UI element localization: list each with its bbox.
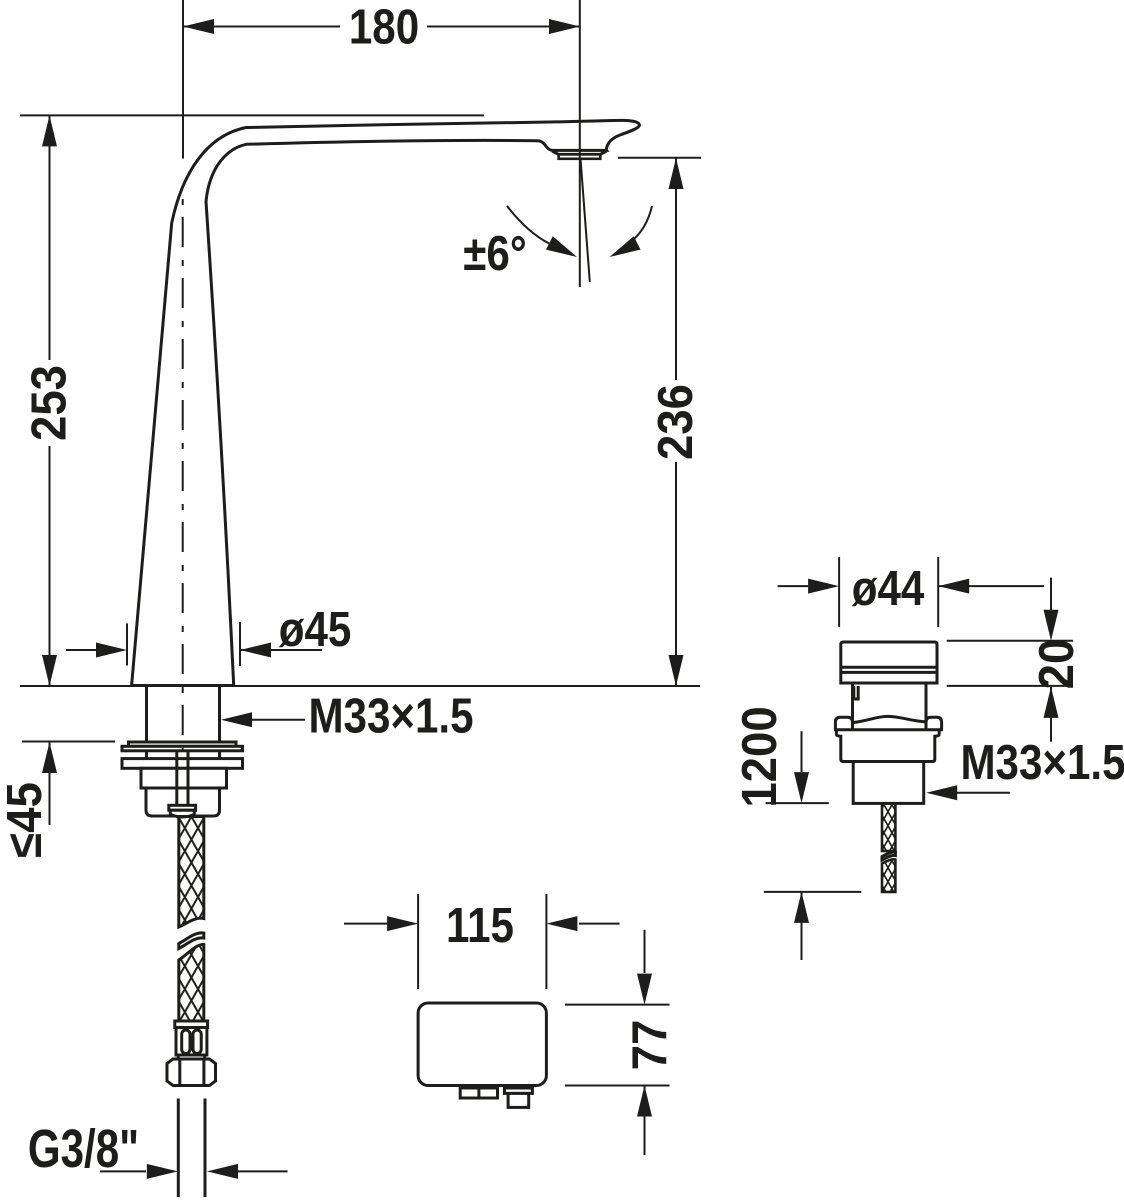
flange base line (834, 728, 943, 731)
20 extension lines (947, 641, 1073, 686)
svg-text:1200: 1200 (733, 706, 788, 807)
M33x1.5 leader arrow (right) (957, 792, 1010, 794)
svg-text:ø44: ø44 (852, 561, 925, 616)
svg-text:G3/8": G3/8" (28, 1119, 139, 1179)
dimension 77 (644, 930, 646, 1155)
svg-text:ø45: ø45 (279, 602, 352, 657)
crimp band 1 (175, 1021, 208, 1028)
77 extension lines (565, 1005, 670, 1086)
dimension G3/8 (100, 1170, 288, 1172)
lock nut upper D (141, 768, 227, 788)
valve cap (841, 642, 937, 683)
dimension <=45 (49, 742, 51, 825)
valve hose lower (882, 859, 895, 892)
counter underside line (22, 741, 115, 743)
dimension o44 (778, 585, 1044, 587)
svg-text:77: 77 (623, 1020, 678, 1071)
braided hose upper section (179, 817, 204, 928)
dimension 1200 (801, 731, 803, 960)
svg-text:M33×1.5: M33×1.5 (308, 689, 473, 744)
svg-text:±6°: ±6° (463, 226, 526, 281)
1200 tick lines (764, 803, 861, 892)
control box (418, 1003, 546, 1086)
dimension 115 (344, 923, 620, 925)
counter top line (20, 685, 700, 687)
crimp ribbed body (176, 1028, 207, 1056)
cylinder edges between washers and flange (147, 751, 220, 759)
+-6 degree arcs (507, 206, 549, 244)
supply pipe (178, 1099, 205, 1198)
wavy washer (853, 716, 927, 722)
clip notch on body (854, 686, 858, 699)
dimension o45 (66, 649, 322, 651)
o45 extension lines (127, 622, 240, 666)
hose break sliver (179, 933, 204, 949)
lock nut lower E (146, 788, 220, 816)
box connector block (460, 1088, 497, 1098)
svg-text:180: 180 (349, 0, 419, 54)
top reference line (spout height) (20, 114, 484, 116)
svg-text:M33×1.5: M33×1.5 (960, 735, 1124, 790)
dimension 236 (675, 158, 677, 686)
svg-text:20: 20 (1030, 639, 1085, 690)
base cylinder below counter (147, 687, 220, 742)
svg-text:115: 115 (446, 898, 514, 953)
braided hose lower section (179, 944, 204, 1021)
extension line right (spout tip axis) + water stream (579, 0, 581, 287)
aerator under spout tip (552, 151, 606, 154)
mounting flange C (122, 759, 243, 769)
hex nut G3/8 (167, 1059, 216, 1086)
o44 extension lines (839, 557, 938, 627)
dimension 20 (1050, 578, 1052, 742)
crimp rib slots (182, 1030, 190, 1054)
faucet body outline (spout + conical column) (132, 120, 640, 685)
236 top extension line (618, 157, 701, 159)
box plug flange (504, 1088, 532, 1093)
threaded rod (177, 751, 188, 806)
flange body (836, 730, 939, 762)
dimension 253 (49, 115, 51, 686)
flange ears (835, 717, 852, 730)
svg-text:236: 236 (649, 384, 704, 460)
valve body (853, 683, 927, 730)
valve hose break sliver (882, 852, 895, 860)
115 extension lines (418, 894, 546, 989)
crimp band 2 (178, 1055, 204, 1059)
svg-text:253: 253 (22, 365, 77, 441)
extension line left (spout root axis) (182, 0, 184, 159)
hose ferrule (169, 805, 196, 810)
M33x1.5 leader arrow (left) (252, 719, 305, 721)
washer B (122, 746, 243, 751)
valve lock nut (853, 762, 924, 804)
box plug body (508, 1093, 529, 1107)
valve hose upper (882, 803, 895, 851)
washer A (129, 742, 237, 746)
tilted water stream line (swivel) (581, 159, 590, 283)
svg-text:≤45: ≤45 (0, 782, 53, 858)
centerline of column (dash-dot) (182, 199, 184, 750)
